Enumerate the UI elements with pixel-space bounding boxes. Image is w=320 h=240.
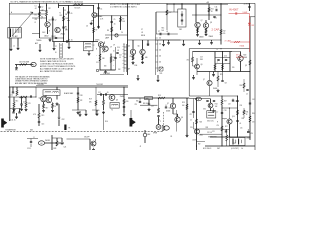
svg-text:680: 680 — [145, 57, 148, 59]
svg-text:C: C — [160, 121, 161, 123]
svg-text:R18: R18 — [80, 95, 83, 97]
svg-text:(4.5 VOLT): (4.5 VOLT) — [231, 148, 239, 150]
svg-text:100: 100 — [159, 38, 161, 40]
svg-text:2 CAP: 2 CAP — [212, 27, 220, 31]
svg-text:R17: R17 — [46, 108, 49, 110]
svg-text:R24: R24 — [215, 104, 218, 106]
svg-text:10K: 10K — [122, 21, 125, 23]
svg-text:2N412: 2N412 — [61, 34, 66, 36]
svg-text:C10: C10 — [117, 47, 120, 49]
svg-text:CR1: CR1 — [179, 29, 182, 31]
svg-text:470: 470 — [187, 60, 190, 62]
svg-text:T6: T6 — [111, 110, 113, 112]
svg-text:C7: C7 — [141, 29, 143, 31]
svg-text:B1 3 CELLS: B1 3 CELLS — [203, 148, 211, 150]
svg-text:R23: R23 — [182, 102, 185, 104]
svg-text:R28: R28 — [206, 127, 209, 129]
svg-text:1K: 1K — [54, 106, 56, 108]
svg-text:R30: R30 — [242, 118, 245, 120]
svg-text:R23: R23 — [220, 74, 223, 76]
svg-text:C16: C16 — [224, 56, 227, 58]
svg-text:P3: P3 — [69, 128, 71, 130]
svg-text:Q8: Q8 — [210, 22, 212, 24]
svg-text:2N408: 2N408 — [213, 88, 217, 90]
svg-text:R19: R19 — [89, 99, 92, 101]
svg-text:220: 220 — [223, 33, 226, 35]
svg-text:.05: .05 — [70, 13, 72, 15]
svg-text:Q7: Q7 — [203, 79, 205, 81]
svg-text:C12: C12 — [119, 55, 122, 57]
svg-text:R7: R7 — [96, 30, 98, 32]
svg-text:C16: C16 — [169, 108, 172, 110]
svg-text:C13: C13 — [42, 124, 45, 126]
svg-text:C20: C20 — [240, 105, 243, 107]
svg-text:B: B — [96, 49, 97, 51]
svg-text:C13 10MF: C13 10MF — [103, 73, 110, 75]
svg-text:C12: C12 — [98, 92, 101, 94]
svg-text:T5: T5 — [216, 49, 218, 51]
svg-text:10K: 10K — [182, 105, 185, 107]
svg-text:R32: R32 — [198, 144, 201, 146]
svg-text:.02: .02 — [190, 120, 192, 122]
svg-text:R9: R9 — [122, 19, 124, 21]
svg-text:3.2: 3.2 — [158, 119, 160, 121]
svg-text:(4.5V): (4.5V) — [193, 140, 198, 142]
svg-text:470: 470 — [217, 125, 219, 127]
svg-text:R12: R12 — [15, 70, 18, 72]
svg-text:C18: C18 — [224, 110, 227, 112]
svg-text:C9: C9 — [85, 48, 87, 50]
svg-text:100MF: 100MF — [243, 12, 248, 14]
svg-text:2K: 2K — [113, 60, 115, 62]
svg-text:R29: R29 — [224, 101, 227, 103]
svg-text:OSC: OSC — [203, 109, 206, 111]
svg-text:C11: C11 — [96, 62, 99, 64]
svg-text:C23 .1: C23 .1 — [27, 148, 31, 150]
svg-text:2N408: 2N408 — [209, 36, 214, 38]
svg-text:2N412: 2N412 — [199, 135, 203, 137]
svg-text:C14: C14 — [151, 106, 154, 108]
svg-text:C1: C1 — [35, 6, 37, 8]
svg-text:R21: R21 — [211, 9, 214, 11]
svg-text:R15: R15 — [16, 101, 19, 103]
svg-text:VOL: VOL — [160, 73, 163, 75]
svg-text:R25: R25 — [200, 122, 203, 124]
svg-text:C14: C14 — [215, 7, 218, 9]
svg-text:R14: R14 — [135, 65, 138, 67]
svg-text:.05: .05 — [246, 94, 248, 96]
svg-text:5MF: 5MF — [200, 59, 203, 61]
svg-text:.05: .05 — [107, 92, 109, 94]
svg-text:C7: C7 — [55, 46, 57, 48]
svg-text:C5: C5 — [114, 19, 116, 21]
svg-text:R28: R28 — [54, 148, 57, 150]
svg-text:R5: R5 — [65, 27, 67, 29]
svg-text:R6: R6 — [100, 16, 102, 18]
svg-text:NO. 8F 4-TRANSISTOR SUPERHET: NO. 8F 4-TRANSISTOR SUPERHET RECEIVER 45… — [11, 1, 84, 4]
svg-text:C24: C24 — [252, 99, 255, 101]
svg-text:P4: P4 — [171, 136, 173, 138]
svg-text:.05: .05 — [119, 57, 121, 59]
svg-text:C13: C13 — [200, 57, 203, 59]
svg-text:1K: 1K — [211, 11, 213, 13]
svg-text:2N408: 2N408 — [120, 96, 124, 98]
svg-text:L2: L2 — [35, 22, 37, 24]
svg-text:100: 100 — [122, 63, 124, 65]
svg-text:10: 10 — [113, 51, 115, 53]
svg-text:C11: C11 — [23, 102, 26, 104]
svg-text:R: R — [217, 122, 218, 124]
svg-text:4.7K: 4.7K — [100, 19, 103, 21]
svg-text:T2: T2 — [93, 45, 95, 47]
svg-text:C9: C9 — [113, 45, 115, 47]
svg-text:47K: 47K — [35, 19, 38, 21]
svg-text:1K: 1K — [246, 114, 248, 116]
svg-text:4.7K: 4.7K — [28, 103, 31, 105]
svg-text:100: 100 — [122, 49, 124, 51]
svg-text:C7: C7 — [158, 31, 160, 33]
svg-text:L1: L1 — [13, 46, 15, 48]
svg-text:100: 100 — [122, 56, 124, 58]
svg-text:SW1: SW1 — [30, 129, 33, 131]
svg-text:10: 10 — [55, 52, 57, 54]
svg-text:2.2K: 2.2K — [228, 104, 231, 106]
svg-text:CR3: CR3 — [251, 25, 254, 27]
svg-text:680: 680 — [104, 66, 107, 68]
svg-text:ADAPTER: ADAPTER — [236, 56, 245, 59]
svg-text:R1: R1 — [35, 15, 37, 17]
svg-text:.02: .02 — [35, 8, 37, 10]
svg-text:470: 470 — [252, 122, 254, 124]
svg-text:R2: R2 — [49, 8, 51, 10]
svg-text:C21: C21 — [212, 131, 215, 133]
svg-text:R24: R24 — [240, 85, 243, 87]
svg-text:Q9: Q9 — [245, 65, 247, 67]
svg-text:T1: T1 — [59, 13, 61, 15]
svg-text:10K VOLUME: 10K VOLUME — [19, 61, 29, 63]
svg-text:OSC: OSC — [59, 15, 62, 17]
svg-text:R20 100K: R20 100K — [143, 103, 149, 105]
svg-text:Q6: Q6 — [201, 64, 203, 66]
svg-text:4.7K: 4.7K — [33, 114, 36, 116]
svg-text:Q1: Q1 — [49, 20, 51, 22]
svg-text:THERMISTOR: THERMISTOR — [208, 137, 217, 139]
svg-text:100: 100 — [159, 50, 161, 52]
svg-text:CR2: CR2 — [62, 119, 65, 121]
svg-text:22K: 22K — [118, 69, 121, 71]
svg-text:C2: C2 — [55, 20, 57, 22]
svg-text:Q7: Q7 — [167, 103, 169, 105]
svg-text:47K: 47K — [65, 30, 68, 32]
svg-text:T4 455KC: T4 455KC — [96, 84, 104, 86]
svg-text:T7: T7 — [217, 112, 219, 114]
svg-text:470: 470 — [130, 56, 133, 58]
svg-text:C25: C25 — [240, 128, 243, 130]
svg-text:+6 VOLT: +6 VOLT — [244, 4, 252, 6]
svg-text:Q3: Q3 — [103, 49, 105, 51]
svg-text:OSC COIL: OSC COIL — [207, 121, 214, 123]
svg-text:Q4: Q4 — [39, 98, 41, 100]
svg-text:2N408: 2N408 — [199, 37, 204, 39]
svg-text:R3: R3 — [65, 14, 67, 16]
svg-text:IN 4007: IN 4007 — [229, 8, 239, 12]
svg-text:C3: C3 — [64, 10, 66, 12]
svg-text:33K: 33K — [102, 58, 105, 60]
svg-text:100: 100 — [122, 59, 124, 61]
svg-text:MODEL TR-1G REGENCY DIV. I.D.: MODEL TR-1G REGENCY DIV. I.D.E.A. — [110, 3, 141, 6]
svg-text:10K: 10K — [162, 30, 165, 32]
svg-text:C22 .05: C22 .05 — [207, 132, 212, 134]
svg-text:C15: C15 — [135, 104, 138, 106]
svg-text:100: 100 — [159, 44, 161, 46]
svg-text:R10: R10 — [102, 52, 105, 54]
svg-text:Q4: Q4 — [128, 46, 130, 48]
svg-text:10K: 10K — [215, 106, 218, 108]
svg-text:.05: .05 — [102, 45, 104, 47]
svg-text:100: 100 — [122, 66, 124, 68]
svg-text:220: 220 — [232, 67, 235, 69]
svg-text:100: 100 — [122, 52, 124, 54]
svg-text:C17: C17 — [225, 83, 228, 85]
svg-text:Q6: Q6 — [116, 100, 118, 102]
svg-text:C9: C9 — [110, 47, 112, 49]
svg-text:R16: R16 — [126, 101, 129, 103]
svg-text:X CAP: X CAP — [225, 39, 232, 42]
svg-text:2N412: 2N412 — [44, 36, 49, 38]
svg-text:.05: .05 — [239, 123, 241, 125]
svg-text:ON-OFF: ON-OFF — [84, 137, 90, 139]
svg-text:C17: C17 — [190, 114, 193, 116]
svg-text:100: 100 — [159, 62, 161, 64]
svg-text:C10: C10 — [10, 95, 13, 97]
svg-text:B+: B+ — [242, 148, 244, 150]
svg-text:R11: R11 — [113, 57, 116, 59]
svg-text:R19: R19 — [42, 115, 45, 117]
svg-text:2N412: 2N412 — [247, 138, 251, 140]
svg-text:C6: C6 — [121, 32, 123, 34]
svg-text:Q7: Q7 — [201, 20, 203, 22]
svg-text:.05: .05 — [117, 50, 119, 52]
svg-text:C6: C6 — [86, 26, 88, 28]
svg-text:R13: R13 — [158, 95, 161, 97]
svg-text:R16: R16 — [162, 28, 165, 30]
svg-text:C21: C21 — [64, 147, 67, 149]
svg-text:TUNING: TUNING — [36, 40, 41, 42]
svg-text:J2: J2 — [140, 146, 142, 148]
svg-text:R22: R22 — [223, 31, 226, 33]
svg-text:100: 100 — [159, 56, 161, 58]
svg-text:R16: R16 — [105, 121, 108, 123]
svg-text:2N408: 2N408 — [166, 111, 170, 113]
svg-text:47K: 47K — [80, 100, 83, 102]
svg-text:R4 2.2K: R4 2.2K — [75, 8, 82, 10]
svg-text:10K: 10K — [89, 102, 92, 104]
svg-text:.05: .05 — [114, 24, 116, 26]
svg-text:C2: C2 — [41, 7, 43, 9]
svg-text:R17: R17 — [169, 12, 172, 14]
svg-text:.02: .02 — [166, 31, 168, 33]
svg-text:SW2: SW2 — [217, 148, 220, 150]
svg-text:Q5: Q5 — [138, 46, 140, 48]
svg-text:ALL CAPACITORS IN MFD: ALL CAPACITORS IN MFD — [40, 70, 63, 73]
svg-text:.02: .02 — [41, 10, 43, 12]
svg-text:R1: R1 — [41, 17, 43, 19]
svg-text:R26: R26 — [252, 113, 255, 115]
svg-text:R8: R8 — [107, 30, 109, 32]
svg-text:C4: C4 — [100, 9, 102, 11]
svg-text:R27: R27 — [225, 126, 228, 128]
svg-text:E: E — [49, 31, 50, 33]
svg-text:100: 100 — [122, 45, 124, 47]
svg-text:.02: .02 — [141, 32, 143, 34]
svg-text:T3 455KC: T3 455KC — [37, 84, 45, 86]
svg-text:Q8: Q8 — [181, 117, 183, 119]
svg-text:R31: R31 — [246, 112, 249, 114]
svg-text:C19: C19 — [190, 127, 193, 129]
svg-text:C8 .05: C8 .05 — [68, 40, 73, 42]
svg-text:Q10: Q10 — [232, 116, 235, 118]
svg-text:C11 .05: C11 .05 — [11, 120, 16, 122]
svg-text:C26: C26 — [251, 133, 254, 135]
